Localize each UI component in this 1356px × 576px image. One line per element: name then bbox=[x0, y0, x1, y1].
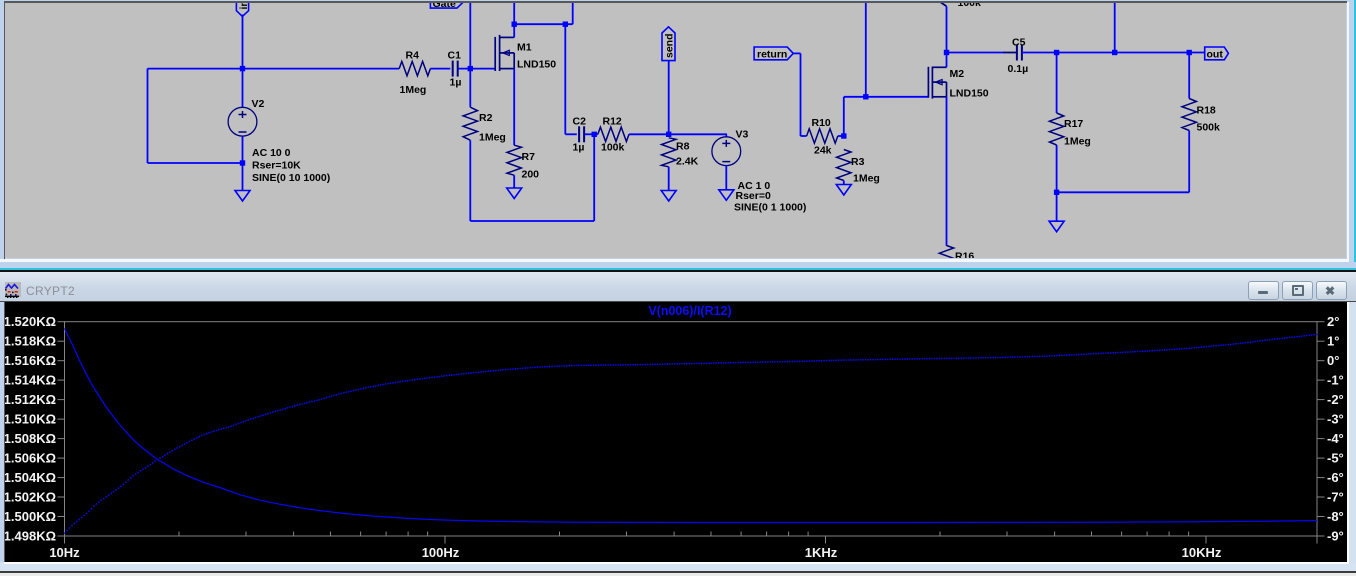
svg-text:2°: 2° bbox=[1327, 314, 1339, 329]
wire: R4 to C1 bbox=[430, 68, 450, 70]
svg-text:R18: R18 bbox=[1197, 105, 1216, 117]
plot box bbox=[65, 322, 1318, 536]
resistor R3 1Meg bbox=[837, 150, 851, 181]
node junction rail / C2 drop bbox=[563, 22, 568, 27]
svg-text:100k: 100k bbox=[958, 3, 982, 9]
svg-text:24k: 24k bbox=[814, 145, 832, 157]
node junction C2 / R12 / feedback bbox=[592, 132, 597, 137]
svg-text:100Hz: 100Hz bbox=[422, 545, 460, 560]
svg-text:R2: R2 bbox=[479, 112, 493, 124]
svg-text:1.506KΩ: 1.506KΩ bbox=[5, 451, 56, 466]
ground below R7 bbox=[507, 188, 522, 199]
wire: top rail bbox=[514, 23, 573, 25]
wire: M1 drain up to rail (goes off top) bbox=[513, 0, 515, 37]
node junction bottom rail / ground bbox=[1054, 190, 1059, 195]
svg-text:SINE(0 10 1000): SINE(0 10 1000) bbox=[252, 172, 330, 184]
wire: C2 to R12 bbox=[584, 133, 598, 135]
svg-text:Rser=10K: Rser=10K bbox=[252, 160, 301, 172]
capacitor C2 1u bbox=[578, 126, 580, 142]
wire: R2 bottom feedback loop bbox=[469, 140, 471, 221]
window icon (waveform) bbox=[5, 282, 21, 298]
ground below R3 bbox=[836, 185, 851, 196]
wire: M1 source down to R7 bbox=[513, 69, 515, 146]
wire: loop left vertical bbox=[147, 69, 149, 163]
svg-text:Gate: Gate bbox=[433, 3, 457, 10]
svg-text:500k: 500k bbox=[1197, 122, 1221, 134]
wire: long vertical from top at x=1114.7 bbox=[1114, 0, 1116, 53]
svg-text:R7: R7 bbox=[522, 151, 536, 163]
resistor (cut off at top) with bottom tip above M2 drain bbox=[939, 0, 946, 6]
svg-text:C5: C5 bbox=[1012, 37, 1026, 49]
svg-text:-6°: -6° bbox=[1327, 470, 1344, 485]
flag out (net label) bbox=[1205, 47, 1229, 60]
svg-text:-8°: -8° bbox=[1327, 509, 1344, 524]
node junction long drop wire bbox=[1112, 50, 1117, 55]
resistor R16 (cut off at bottom) bbox=[939, 246, 953, 277]
svg-text:R8: R8 bbox=[676, 141, 690, 153]
svg-text:100k: 100k bbox=[601, 142, 625, 154]
wire: M2 source down to R16 bbox=[946, 97, 948, 246]
svg-text:return: return bbox=[757, 48, 787, 60]
svg-text:-3°: -3° bbox=[1327, 412, 1344, 427]
svg-text:V3: V3 bbox=[736, 129, 749, 141]
svg-text:1°: 1° bbox=[1327, 334, 1339, 349]
x axis ticks and labels bbox=[178, 532, 180, 537]
svg-text:V2: V2 bbox=[252, 98, 265, 110]
svg-text:1.508KΩ: 1.508KΩ bbox=[5, 431, 56, 446]
wire: R8 to ground bbox=[668, 167, 670, 191]
ground below V3 bbox=[719, 190, 734, 201]
mosfet M2 LND150 bbox=[927, 67, 929, 98]
wire: loop bottom segment bbox=[148, 162, 243, 164]
svg-text:0.1µ: 0.1µ bbox=[1008, 63, 1029, 75]
svg-text:LND150: LND150 bbox=[517, 59, 556, 71]
wire: R10 to junction bbox=[838, 135, 844, 137]
node junction R17 top bbox=[1054, 50, 1059, 55]
y axis ticks and labels bbox=[58, 321, 65, 323]
wire: bottom rail R17-R18 bbox=[1057, 191, 1190, 193]
window buttons: minimize / restore / close bbox=[1248, 281, 1279, 300]
wire: rail down to C2 bbox=[564, 24, 566, 134]
ground below V2 bbox=[235, 191, 250, 202]
svg-text:Rser=0: Rser=0 bbox=[736, 190, 771, 202]
wire: C5 to out net bbox=[1022, 52, 1205, 54]
wire: junction up and to M2 gate bbox=[843, 97, 845, 136]
svg-text:out: out bbox=[1207, 48, 1224, 60]
node junction gate net / top wire bbox=[863, 94, 868, 99]
svg-text:M1: M1 bbox=[517, 42, 532, 54]
wire: V3 top lead bbox=[725, 134, 727, 137]
svg-text:1.512KΩ: 1.512KΩ bbox=[5, 392, 56, 407]
voltage source V2 bbox=[228, 107, 257, 136]
svg-text:-2°: -2° bbox=[1327, 392, 1344, 407]
svg-text:1µ: 1µ bbox=[573, 142, 585, 154]
trace: phase dotted bbox=[64, 334, 1318, 534]
trace: magnitude V(n006)/I(R12) solid bbox=[65, 329, 1318, 523]
svg-text:R3: R3 bbox=[851, 156, 865, 168]
window title CRYPT2 bbox=[26, 284, 75, 298]
resistor R17 1Meg bbox=[1056, 53, 1058, 114]
svg-text:1.514KΩ: 1.514KΩ bbox=[5, 373, 56, 388]
svg-text:C2: C2 bbox=[573, 116, 587, 128]
glow line between windows bbox=[0, 262, 1356, 269]
wire: R17 bottom to junction bbox=[1056, 145, 1058, 221]
svg-text:1.520KΩ: 1.520KΩ bbox=[5, 314, 56, 329]
svg-text:1.504KΩ: 1.504KΩ bbox=[5, 470, 56, 485]
svg-text:1Meg: 1Meg bbox=[853, 173, 880, 185]
svg-text:1.516KΩ: 1.516KΩ bbox=[5, 353, 56, 368]
svg-text:1Meg: 1Meg bbox=[1064, 136, 1091, 148]
svg-text:2.4K: 2.4K bbox=[676, 156, 699, 168]
waveform window bbox=[0, 270, 1356, 272]
svg-text:-5°: -5° bbox=[1327, 451, 1344, 466]
right edge bottom tick bbox=[1316, 536, 1318, 544]
bottom window edge bbox=[4, 562, 1349, 564]
svg-text:1.518KΩ: 1.518KΩ bbox=[5, 334, 56, 349]
svg-text:R12: R12 bbox=[603, 116, 622, 128]
wire: rail stub up off-screen bbox=[572, 0, 574, 24]
svg-text:-9°: -9° bbox=[1327, 529, 1344, 544]
node junction send/R8 bbox=[666, 132, 671, 137]
schematic canvas bbox=[5, 3, 1346, 258]
svg-text:1.502KΩ: 1.502KΩ bbox=[5, 490, 56, 505]
flag return (net label) bbox=[754, 47, 793, 60]
wire: in-flag stem down to junction bbox=[242, 15, 244, 69]
voltage source V3 bbox=[712, 137, 741, 166]
svg-text:1µ: 1µ bbox=[450, 77, 462, 89]
svg-text:R10: R10 bbox=[812, 117, 831, 129]
node junction at V2 bottom / loop bbox=[240, 160, 245, 165]
svg-text:0°: 0° bbox=[1327, 353, 1339, 368]
wire: loop left of V2, top segment bbox=[148, 68, 243, 70]
capacitor C5 0.1u bbox=[1016, 45, 1018, 61]
svg-text:-4°: -4° bbox=[1327, 431, 1344, 446]
wire: V2 top lead bbox=[242, 69, 244, 107]
wire: Gate flag stem down through junction to R2 bbox=[469, 0, 471, 107]
svg-text:LND150: LND150 bbox=[950, 88, 989, 100]
svg-text:AC 10 0: AC 10 0 bbox=[252, 147, 291, 159]
node junction R18 top / out bbox=[1187, 50, 1192, 55]
svg-text:1.500KΩ: 1.500KΩ bbox=[5, 509, 56, 524]
node junction R10/R3/M2 gate bbox=[841, 133, 846, 138]
resistor R2 1Meg bbox=[463, 107, 477, 140]
node junction at in-net / V2 top bbox=[240, 66, 245, 71]
wire: drain rail to C5 bbox=[947, 52, 1005, 54]
flag in (net label, cut off at top) bbox=[236, 0, 248, 16]
wire: R3 to ground bbox=[843, 181, 845, 185]
svg-text:1KHz: 1KHz bbox=[805, 545, 838, 560]
resistor R10 24k bbox=[807, 129, 838, 143]
resistor R4 1Meg bbox=[399, 61, 430, 75]
waveform plot bbox=[5, 302, 1347, 562]
node junction M2 drain / C5 rail bbox=[944, 50, 949, 55]
svg-text:1.498KΩ: 1.498KΩ bbox=[5, 529, 56, 544]
svg-text:R17: R17 bbox=[1064, 118, 1083, 130]
flag Gate (net label, cut off at top) bbox=[430, 0, 463, 8]
svg-text:SINE(0 1 1000): SINE(0 1 1000) bbox=[734, 202, 806, 214]
mosfet M1 LND150 bbox=[494, 37, 496, 71]
svg-text:1.510KΩ: 1.510KΩ bbox=[5, 412, 56, 427]
wire: top resistor to M2 drain junction bbox=[946, 6, 948, 67]
wire: R18 bottom bbox=[1188, 131, 1190, 193]
resistor R18 500k bbox=[1188, 53, 1190, 99]
svg-text:200: 200 bbox=[522, 169, 540, 181]
svg-text:R4: R4 bbox=[406, 50, 420, 62]
C5 left lead bbox=[1003, 52, 1016, 54]
plot background bbox=[5, 302, 1347, 562]
node junction M1 drain bbox=[512, 22, 517, 27]
flag send (net label) bbox=[662, 27, 675, 61]
svg-text:1Meg: 1Meg bbox=[400, 84, 427, 96]
resistor R7 200 bbox=[507, 145, 521, 175]
wire: return flag to R10 bbox=[793, 52, 800, 54]
svg-text:send: send bbox=[664, 33, 676, 58]
svg-text:-7°: -7° bbox=[1327, 490, 1344, 505]
wire: long vertical from top to gate net bbox=[865, 0, 867, 97]
svg-text:V(n006)/I(R12): V(n006)/I(R12) bbox=[648, 304, 731, 318]
svg-text:in: in bbox=[238, 3, 250, 10]
svg-text:10Hz: 10Hz bbox=[49, 545, 80, 560]
resistor R12 100k bbox=[598, 127, 629, 141]
node junction gate net bbox=[468, 66, 473, 71]
ground below R17 bbox=[1049, 221, 1064, 232]
wire: R12 to send node to V3 bbox=[629, 133, 727, 135]
resistor R8 2.4K bbox=[662, 138, 676, 167]
ground below R8 bbox=[661, 191, 676, 202]
svg-text:-1°: -1° bbox=[1327, 373, 1344, 388]
wire: main input net to R4 bbox=[243, 68, 400, 70]
wire: V2 bottom lead to ground bbox=[242, 137, 244, 191]
schematic window frame bbox=[0, 0, 1356, 262]
wire: R7 to ground bbox=[513, 175, 515, 188]
capacitor C1 1u bbox=[452, 61, 454, 77]
plot client edge bbox=[0, 301, 1356, 303]
svg-text:M2: M2 bbox=[950, 68, 965, 80]
title bar bbox=[0, 272, 1356, 301]
svg-text:10KHz: 10KHz bbox=[1182, 545, 1222, 560]
wire: C1 to gate node bbox=[458, 68, 495, 70]
svg-text:1Meg: 1Meg bbox=[479, 132, 506, 144]
wire: V3 bottom to ground bbox=[725, 166, 727, 190]
svg-text:C1: C1 bbox=[448, 50, 462, 62]
wire: send stem bbox=[668, 61, 670, 135]
svg-text:R16: R16 bbox=[955, 251, 974, 259]
